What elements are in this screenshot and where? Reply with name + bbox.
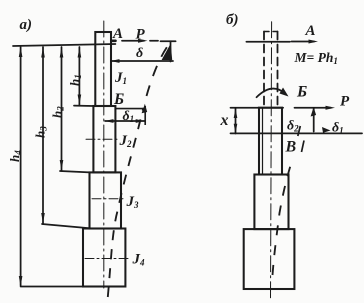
svg-text:A: A xyxy=(305,23,316,39)
svg-text:A: A xyxy=(112,26,123,42)
svg-text:P: P xyxy=(136,27,146,43)
svg-text:б): б) xyxy=(226,12,238,28)
svg-text:P: P xyxy=(340,94,350,110)
svg-text:а): а) xyxy=(20,17,33,33)
svg-text:Б: Б xyxy=(113,91,124,108)
svg-text:M= Ph1: M= Ph1 xyxy=(294,50,338,66)
svg-text:Б: Б xyxy=(296,84,307,101)
svg-text:δ: δ xyxy=(136,46,143,61)
svg-text:x: x xyxy=(220,112,229,129)
svg-text:В: В xyxy=(285,139,297,156)
